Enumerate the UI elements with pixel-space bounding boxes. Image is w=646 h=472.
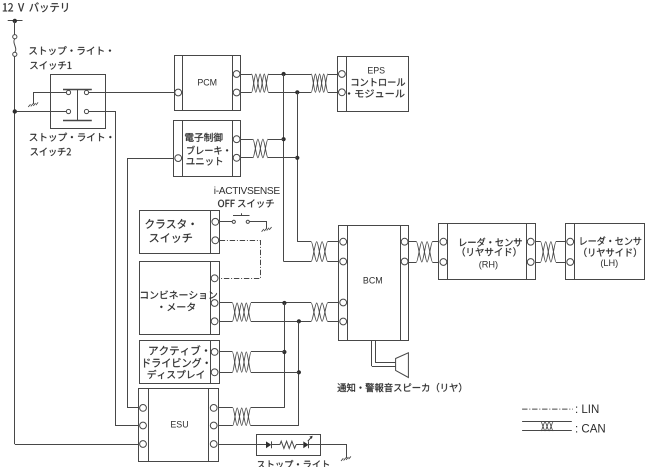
svg-text:PCM: PCM [197, 78, 217, 88]
svg-text:i-ACTIVSENSE: i-ACTIVSENSE [214, 186, 281, 197]
svg-text:(LH): (LH) [600, 258, 618, 268]
svg-text:(RH): (RH) [479, 259, 498, 269]
svg-text:: CAN: : CAN [575, 424, 606, 436]
svg-text:BCM: BCM [363, 276, 383, 286]
svg-text:EPS: EPS [367, 65, 385, 75]
svg-text:ESU: ESU [170, 420, 188, 430]
svg-text:: LIN: : LIN [575, 404, 599, 416]
